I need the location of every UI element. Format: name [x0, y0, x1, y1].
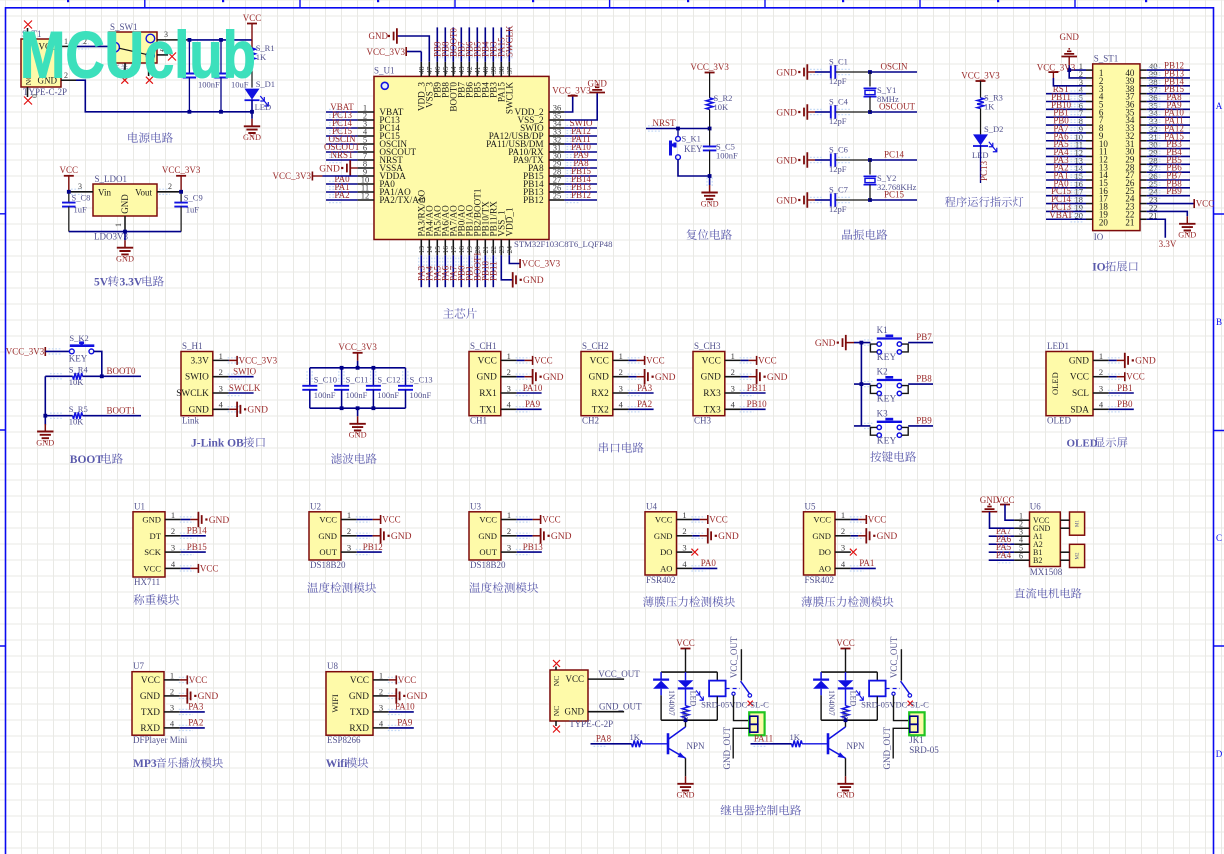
module U8 ESP8266 body: [326, 672, 373, 736]
S_ST1 pin 14: [1086, 171, 1093, 173]
svg-text:2: 2: [168, 182, 172, 191]
wire net PB6 to pin 42: [468, 27, 470, 61]
svg-text:RX1: RX1: [479, 389, 497, 399]
wire VCC from connector S_H1 J-Link pin 1: [228, 359, 231, 361]
wire net PA9 from S_ST1 pin 35: [1147, 108, 1190, 110]
capacitor S_C3 10uF: [220, 40, 222, 74]
S_SW1 stub down 2: [148, 63, 150, 76]
wire S_T1 GND down to ground bus: [76, 80, 252, 112]
resistor 1K relay PA8: [685, 688, 687, 705]
svg-text:GND: GND: [349, 431, 367, 440]
LED S_D1: [251, 62, 253, 88]
wire net PB13 from module U3 DS18B20 pin 3: [517, 551, 542, 553]
svg-text:Wifi: Wifi: [326, 758, 348, 770]
S_ST1 pin 35: [1140, 108, 1147, 110]
svg-text:PB13: PB13: [523, 542, 544, 552]
ground symbol for S_C6: [798, 159, 800, 161]
svg-text:PA0: PA0: [701, 558, 717, 568]
svg-text:SDA: SDA: [1070, 405, 1089, 415]
relay contact wire to connector PA8: [732, 692, 735, 695]
svg-text:VCC: VCC: [319, 515, 337, 525]
power flag VCC_3V3 indicator: [976, 80, 986, 82]
capacitor S_C4 12pF: [815, 111, 831, 113]
svg-text:VCC: VCC: [676, 638, 695, 648]
svg-text:VCC: VCC: [60, 165, 79, 175]
wire net PA3 to S_ST1 pin 13: [1046, 163, 1086, 165]
wire net PA3 from connector S_CH2 pin 3: [629, 392, 654, 394]
svg-text:TXD: TXD: [141, 708, 160, 718]
svg-text:NC: NC: [552, 706, 561, 716]
svg-text:D: D: [1216, 749, 1223, 759]
S_ST1 pin 33: [1140, 124, 1147, 126]
wire net PA5 to U6 pin 5: [989, 551, 1014, 553]
wire GND from module U1 HX711 pin 1: [181, 519, 191, 521]
relay coil PA8: [716, 672, 718, 681]
svg-text:S_D1: S_D1: [256, 79, 275, 89]
motor connector M2: [1070, 544, 1085, 567]
mcu S_U1 pin 27 PB14: [549, 183, 564, 185]
wire net PB14 from S_ST1 pin 38: [1147, 85, 1190, 87]
wire connector to GND_OUT PA11: [893, 728, 909, 758]
svg-text:S_C7: S_C7: [829, 185, 848, 195]
ground symbol for S_C7: [798, 199, 800, 201]
svg-text:PA10: PA10: [523, 383, 543, 393]
svg-text:PB9: PB9: [916, 415, 932, 425]
module U6 MX1508 body: [1030, 512, 1061, 567]
mcu S_U1 pin 23 VSS_1: [500, 240, 502, 256]
mcu S_U1 pin 13 PA3/RX/AO: [420, 240, 422, 256]
wire net PB5 to pin 41: [476, 27, 478, 61]
wire net PA4 to U6 pin 6: [989, 559, 1014, 561]
wire net PB15 from module U1 HX711 pin 3: [181, 551, 206, 553]
svg-text:B: B: [1216, 317, 1222, 327]
svg-text:S_K1: S_K1: [682, 134, 701, 144]
svg-text:S_CH1: S_CH1: [470, 341, 497, 351]
ground symbol at S_U1 pin 23: [513, 272, 516, 287]
svg-text:VCC_3V3: VCC_3V3: [338, 342, 377, 352]
mcu S_U1 pin 2 PC13: [358, 119, 374, 121]
wire net PC13 to pin 2: [326, 119, 358, 121]
switch S_SW1 contacts: [110, 42, 120, 52]
svg-text:1: 1: [731, 351, 735, 361]
wire net RST to S_ST1 pin 4: [1046, 93, 1086, 95]
wire net PA7 from pin 17: [452, 255, 454, 287]
svg-text:GND: GND: [718, 532, 739, 542]
svg-text:PB1: PB1: [1117, 383, 1133, 393]
mcu S_U1 pin 26 PB13: [549, 191, 564, 193]
svg-text:3: 3: [379, 702, 383, 712]
S_ST1 pin 24: [1140, 195, 1147, 197]
mcu S_U1 pin 30 PA9/TX: [549, 159, 564, 161]
svg-text:TX2: TX2: [592, 405, 609, 415]
wire OSCIN row: [870, 71, 917, 73]
svg-text:S_C1: S_C1: [829, 57, 848, 67]
wire net PB14 from module U1 HX711 pin 2: [181, 535, 206, 537]
svg-text:GND: GND: [477, 373, 497, 383]
mcu S_U1 pin 39 PB3: [492, 62, 494, 77]
wire net PC13 to S_ST1 pin 19: [1046, 210, 1086, 212]
svg-text:PA9: PA9: [397, 718, 413, 728]
svg-text:GND: GND: [877, 532, 898, 542]
svg-text:NPN: NPN: [847, 741, 866, 751]
wire net OSCOUT to pin 6: [326, 151, 358, 153]
power flag VCC_3V3 at S_U1 pin 24: [519, 259, 521, 268]
svg-text:2: 2: [347, 526, 351, 536]
svg-text:20: 20: [1099, 217, 1109, 227]
svg-text:VCC: VCC: [996, 495, 1015, 505]
wire net PB9 from key K3: [908, 425, 933, 427]
svg-text:12pF: 12pF: [829, 204, 847, 214]
svg-text:1: 1: [841, 510, 845, 520]
svg-text:GND: GND: [116, 255, 134, 264]
svg-text:Vout: Vout: [135, 188, 152, 198]
svg-text:32.768KHz: 32.768KHz: [877, 182, 917, 192]
svg-text:KEY: KEY: [877, 437, 897, 447]
svg-text:100nF: 100nF: [716, 151, 738, 161]
wire to key K2: [854, 383, 870, 385]
wire VCC from module U2 DS18B20 pin 1: [357, 519, 373, 521]
wire net PA1 to S_ST1 pin 15: [1046, 179, 1086, 181]
svg-text:3: 3: [841, 543, 845, 553]
svg-text:VCC: VCC: [141, 676, 160, 686]
circuit title 串口电路: [599, 442, 644, 453]
S_LDO1 pin 2 wire: [157, 191, 181, 193]
TYPE-C NC pin bottom: [555, 721, 557, 726]
power flag VCC relay PA8: [681, 648, 691, 650]
diode 1N4007 PA11: [820, 672, 822, 680]
svg-text:PB7: PB7: [916, 332, 932, 342]
capacitor S_C8 1uF: [68, 192, 70, 203]
svg-text:PA3: PA3: [637, 383, 653, 393]
svg-text:VCC: VCC: [813, 515, 831, 525]
ground symbol boot: [44, 424, 46, 432]
wire GND from connector S_CH2 pin 2: [629, 376, 637, 378]
svg-text:4: 4: [619, 400, 624, 410]
svg-text:GND: GND: [776, 196, 797, 206]
module U5 FSR402 body: [804, 512, 836, 575]
svg-text:GND: GND: [391, 532, 412, 542]
svg-text:GND: GND: [1069, 356, 1089, 366]
ground bus junction dots: [188, 110, 192, 114]
svg-text:RX3: RX3: [703, 389, 721, 399]
svg-text:CH1: CH1: [470, 416, 487, 426]
svg-text:B2: B2: [1033, 556, 1042, 565]
mcu S_U1 pin 33 PA12/USB/DP: [549, 135, 564, 137]
svg-text:5V: 5V: [94, 277, 109, 289]
svg-text:GND: GND: [565, 707, 585, 717]
wire net PB4 to pin 40: [484, 27, 486, 61]
svg-text:VCC_3V3: VCC_3V3: [239, 355, 278, 365]
capacitor S_C5 100nF: [709, 129, 711, 147]
svg-text:GND: GND: [247, 406, 268, 416]
wire net PB8 from key K2: [908, 383, 933, 385]
wire VCC from module U1 HX711 pin 4: [181, 567, 191, 569]
wire net PB13 from pin 26: [564, 191, 597, 193]
S_ST1 pin 19: [1086, 210, 1093, 212]
motor connector M1: [1070, 512, 1085, 535]
svg-text:SWCLK: SWCLK: [176, 389, 209, 399]
svg-text:0: 0: [30, 94, 39, 98]
svg-text:S_LDO1: S_LDO1: [95, 174, 128, 184]
wire LED to GND: [251, 99, 253, 118]
regulator S_LDO1 body: [93, 184, 157, 216]
ground symbol for S_C1: [798, 71, 800, 73]
wire LED to PC13: [980, 145, 982, 183]
svg-text:100nF: 100nF: [377, 390, 399, 400]
svg-text:VCC: VCC: [1070, 373, 1089, 383]
circuit title 晶振电路: [842, 229, 887, 240]
mcu S_U1 pin 9 VDDA: [358, 175, 374, 177]
svg-text:VCC_3V3: VCC_3V3: [690, 62, 729, 72]
wire net PB12 from S_ST1 pin 40: [1147, 69, 1190, 71]
wire emitter to GND PA8: [685, 758, 687, 776]
wire net PB8 to pin 45: [444, 27, 446, 61]
svg-text:TYPE-C-2P: TYPE-C-2P: [569, 719, 613, 729]
wire net PB3 from S_ST1 pin 30: [1147, 148, 1190, 150]
svg-text:U7: U7: [133, 661, 144, 671]
svg-text:VCC: VCC: [398, 675, 417, 685]
svg-text:CH2: CH2: [582, 416, 599, 426]
svg-text:PB12: PB12: [523, 195, 544, 205]
wire VCC from S_ST1 pin 23: [1147, 203, 1195, 205]
wire GND from module U3 DS18B20 pin 2: [517, 535, 533, 537]
svg-text:S_C12: S_C12: [377, 374, 400, 384]
ground symbol relay PA11: [845, 776, 847, 784]
connector S_CH3 body: [693, 352, 725, 416]
wire OSCOUT row: [870, 111, 917, 113]
svg-text:PB11: PB11: [747, 383, 767, 393]
svg-text:BOOT1: BOOT1: [107, 406, 136, 416]
mcu S_U1 pin 3 PC14: [358, 127, 374, 129]
svg-text:HX711: HX711: [134, 577, 160, 587]
svg-text:Vin: Vin: [98, 188, 111, 198]
svg-text:GND: GND: [478, 531, 497, 541]
S_ST1 pin 39: [1140, 77, 1147, 79]
svg-text:100nF: 100nF: [346, 390, 368, 400]
svg-text:VCC: VCC: [479, 515, 497, 525]
svg-text:GND: GND: [1178, 231, 1196, 240]
svg-text:VCC_OUT: VCC_OUT: [598, 669, 640, 679]
circuit title 温度检测模块 (U2): [307, 582, 376, 593]
S_ST1 pin 10: [1086, 140, 1093, 142]
mcu S_U1 pin 10 PA0: [358, 183, 374, 185]
svg-text:U3: U3: [470, 501, 481, 511]
S_ST1 pin 21: [1140, 218, 1147, 220]
wire net PB7 from S_ST1 pin 26: [1147, 179, 1190, 181]
svg-text:GND: GND: [523, 276, 544, 286]
svg-text:PC13: PC13: [979, 160, 989, 181]
wire net PB6 from S_ST1 pin 27: [1147, 171, 1190, 173]
svg-text:GND: GND: [120, 194, 130, 214]
wire GND from module U8 ESP8266 pin 2: [389, 695, 397, 697]
S_ST1 pin 2: [1086, 77, 1093, 79]
S_ST1 pin 15: [1086, 179, 1093, 181]
wire net PB10 from connector S_CH3 pin 4: [741, 408, 766, 410]
wire net PC14 to pin 3: [326, 127, 358, 129]
svg-text:KEY: KEY: [877, 395, 897, 405]
svg-text:ESP8266: ESP8266: [327, 735, 361, 745]
wire net PA5 from pin 15: [436, 255, 438, 287]
LED S_D2: [980, 109, 982, 135]
wire VCC from module U3 DS18B20 pin 1: [517, 519, 533, 521]
wire net BOOT0 to pin 44: [452, 27, 454, 61]
mcu S_U1 pin 1 VBAT: [358, 111, 374, 113]
svg-text:PB15: PB15: [187, 542, 208, 552]
svg-text:GND: GND: [407, 692, 428, 702]
svg-text:U6: U6: [1030, 502, 1041, 512]
svg-text:S_R5: S_R5: [69, 404, 88, 414]
svg-text:1uF: 1uF: [186, 205, 200, 215]
svg-text:S_ST1: S_ST1: [1094, 54, 1119, 64]
wire GND from module U4 FSR402 pin 2: [692, 535, 700, 537]
S_ST1 pin 40: [1140, 69, 1147, 71]
svg-text:AO: AO: [819, 563, 831, 573]
wire VCC_3V3 to S_U1 pin 48: [406, 51, 421, 53]
mcu S_U1 pin 29 PA8: [549, 167, 564, 169]
S_ST1 pin 29: [1140, 155, 1147, 157]
transistor NPN PA11: [827, 733, 830, 754]
S_ST1 pin 32: [1140, 132, 1147, 134]
svg-text:24: 24: [505, 246, 514, 254]
wire net PB7 from key K1: [908, 342, 933, 344]
svg-text:LED: LED: [849, 691, 858, 707]
S_ST1 pin 1: [1086, 69, 1093, 71]
svg-text:VCC: VCC: [590, 356, 609, 366]
wire S_U1 pin 24 VDD_1 to VCC_3V3: [509, 255, 520, 263]
svg-text:VCC: VCC: [1196, 199, 1215, 209]
svg-text:PB10: PB10: [747, 399, 768, 409]
svg-text:100nF: 100nF: [314, 390, 336, 400]
resistor 1K relay PA11: [845, 688, 847, 705]
wire net PA12 from S_ST1 pin 32: [1147, 132, 1190, 134]
svg-text:PB8: PB8: [916, 374, 932, 384]
svg-text:GND: GND: [776, 108, 797, 118]
wire connector to GND_OUT PA8: [733, 728, 749, 758]
svg-text:GND: GND: [587, 79, 607, 89]
S_T1 pin NC top (no connect): [27, 28, 29, 39]
svg-text:PA3: PA3: [188, 702, 204, 712]
svg-text:U8: U8: [327, 661, 338, 671]
S_ST1 pin 6: [1086, 108, 1093, 110]
svg-text:TXD: TXD: [350, 708, 369, 718]
wire net PB0 to S_ST1 pin 8: [1046, 124, 1086, 126]
wire net PA12 from pin 33: [564, 135, 597, 137]
module U7 DFPlayer Mini body: [132, 672, 164, 736]
power flag VCC at S_ST1 pin 23: [1193, 199, 1195, 208]
ground symbol relay PA8: [685, 776, 687, 784]
wire VCC from module U5 FSR402 pin 1: [851, 519, 859, 521]
svg-text:VCC: VCC: [478, 356, 497, 366]
wire VCC from module U7 DFPlayer Mini pin 1: [180, 679, 188, 681]
svg-text:1: 1: [114, 223, 123, 227]
transistor NPN PA8: [667, 733, 670, 754]
capacitor S_C7 12pF: [815, 199, 831, 201]
svg-text:DS18B20: DS18B20: [310, 560, 346, 570]
power flag VCC_3V3 at S_C9: [176, 175, 186, 177]
svg-text:VCC_OUT: VCC_OUT: [729, 636, 739, 678]
svg-text:VCC: VCC: [542, 515, 561, 525]
svg-text:1uF: 1uF: [74, 205, 88, 215]
circuit title 薄膜压力检测模块 (U5): [801, 596, 893, 607]
S_ST1 pin 16: [1086, 187, 1093, 189]
capacitor S_C13 100nF: [405, 368, 407, 386]
wire net PA5 to S_ST1 pin 11: [1046, 148, 1086, 150]
svg-text:GND: GND: [812, 531, 831, 541]
svg-text:3: 3: [170, 702, 174, 712]
svg-text:GND: GND: [677, 791, 695, 800]
wire net PB15 from S_ST1 pin 37: [1147, 93, 1190, 95]
wires U6 to M2: [1060, 551, 1069, 553]
svg-text:KEY: KEY: [877, 353, 897, 363]
svg-text:RXD: RXD: [140, 724, 160, 734]
svg-text:GND: GND: [140, 692, 160, 702]
mcu S_U1 pin 43 PB7: [460, 62, 462, 77]
ground symbol at S_ST1 pin 22: [1186, 216, 1188, 224]
svg-text:GND: GND: [776, 156, 797, 166]
wire net PA2 to S_ST1 pin 14: [1046, 171, 1086, 173]
svg-text:S_C4: S_C4: [829, 97, 849, 107]
module U5 FSR402 pin 3 no connect: [850, 549, 857, 556]
svg-text:MX1508: MX1508: [1030, 567, 1063, 577]
svg-text:1N4007: 1N4007: [827, 690, 836, 716]
circuit title 复位电路: [686, 229, 731, 240]
wire net PB11 from connector S_CH3 pin 3: [741, 392, 766, 394]
ground symbol at S_U1 pin 8 VSSA: [341, 167, 343, 169]
wire net PA8 from pin 29: [564, 167, 597, 169]
wire GND from module U2 DS18B20 pin 2: [357, 535, 373, 537]
svg-text:21: 21: [1125, 217, 1134, 227]
svg-text:VBAT: VBAT: [1049, 210, 1073, 220]
svg-text:S_CH2: S_CH2: [582, 341, 609, 351]
wire VCC from module U8 ESP8266 pin 1: [389, 679, 397, 681]
ground symbol reset: [709, 176, 711, 185]
wire GND to S_ST1 pins 1,2: [1069, 65, 1086, 70]
wire GND from module U7 DFPlayer Mini pin 2: [180, 695, 188, 697]
svg-text:S_R4: S_R4: [69, 365, 89, 375]
wire net PA15 to pin 38: [500, 27, 502, 61]
svg-text:1: 1: [1099, 351, 1103, 361]
U6 pin 5 B1: [1014, 551, 1029, 553]
svg-text:PA10: PA10: [395, 702, 415, 712]
svg-text:SWIO: SWIO: [185, 373, 209, 383]
svg-text:GND: GND: [369, 31, 389, 41]
wire GND from connector S_CH3 pin 2: [741, 376, 749, 378]
svg-text:2: 2: [507, 526, 511, 536]
wire net PB0 from pin 18: [460, 255, 462, 287]
svg-text:VCC: VCC: [200, 563, 219, 573]
svg-text:DO: DO: [660, 547, 672, 557]
S_ST1 pin 36: [1140, 101, 1147, 103]
svg-text:GND: GND: [701, 373, 721, 383]
svg-text:S_C8: S_C8: [72, 193, 91, 203]
wire S_U1 pin 23 VSS_1 to GND: [501, 255, 512, 279]
wire filter bottom bus: [310, 407, 406, 409]
wire to key K1: [854, 342, 870, 344]
svg-text:AO: AO: [660, 563, 672, 573]
svg-text:M2: M2: [1076, 552, 1081, 559]
wire key S_K2 to BOOT0 row: [94, 351, 102, 376]
svg-text:U2: U2: [310, 501, 321, 511]
wire relay bottom rail PA11: [821, 719, 877, 721]
wire net PB14 from pin 27: [564, 183, 597, 185]
svg-text:RX2: RX2: [591, 389, 609, 399]
relay contact wire to connector PA11: [892, 692, 895, 695]
mcu S_U1 pin 28 PB15: [549, 175, 564, 177]
svg-text:VCC: VCC: [143, 563, 161, 573]
mcu S_U1 pin 20 PB2/BOOT1: [476, 240, 478, 256]
svg-text:GND: GND: [589, 373, 609, 383]
wire net PA3 from pin 13: [420, 255, 422, 287]
